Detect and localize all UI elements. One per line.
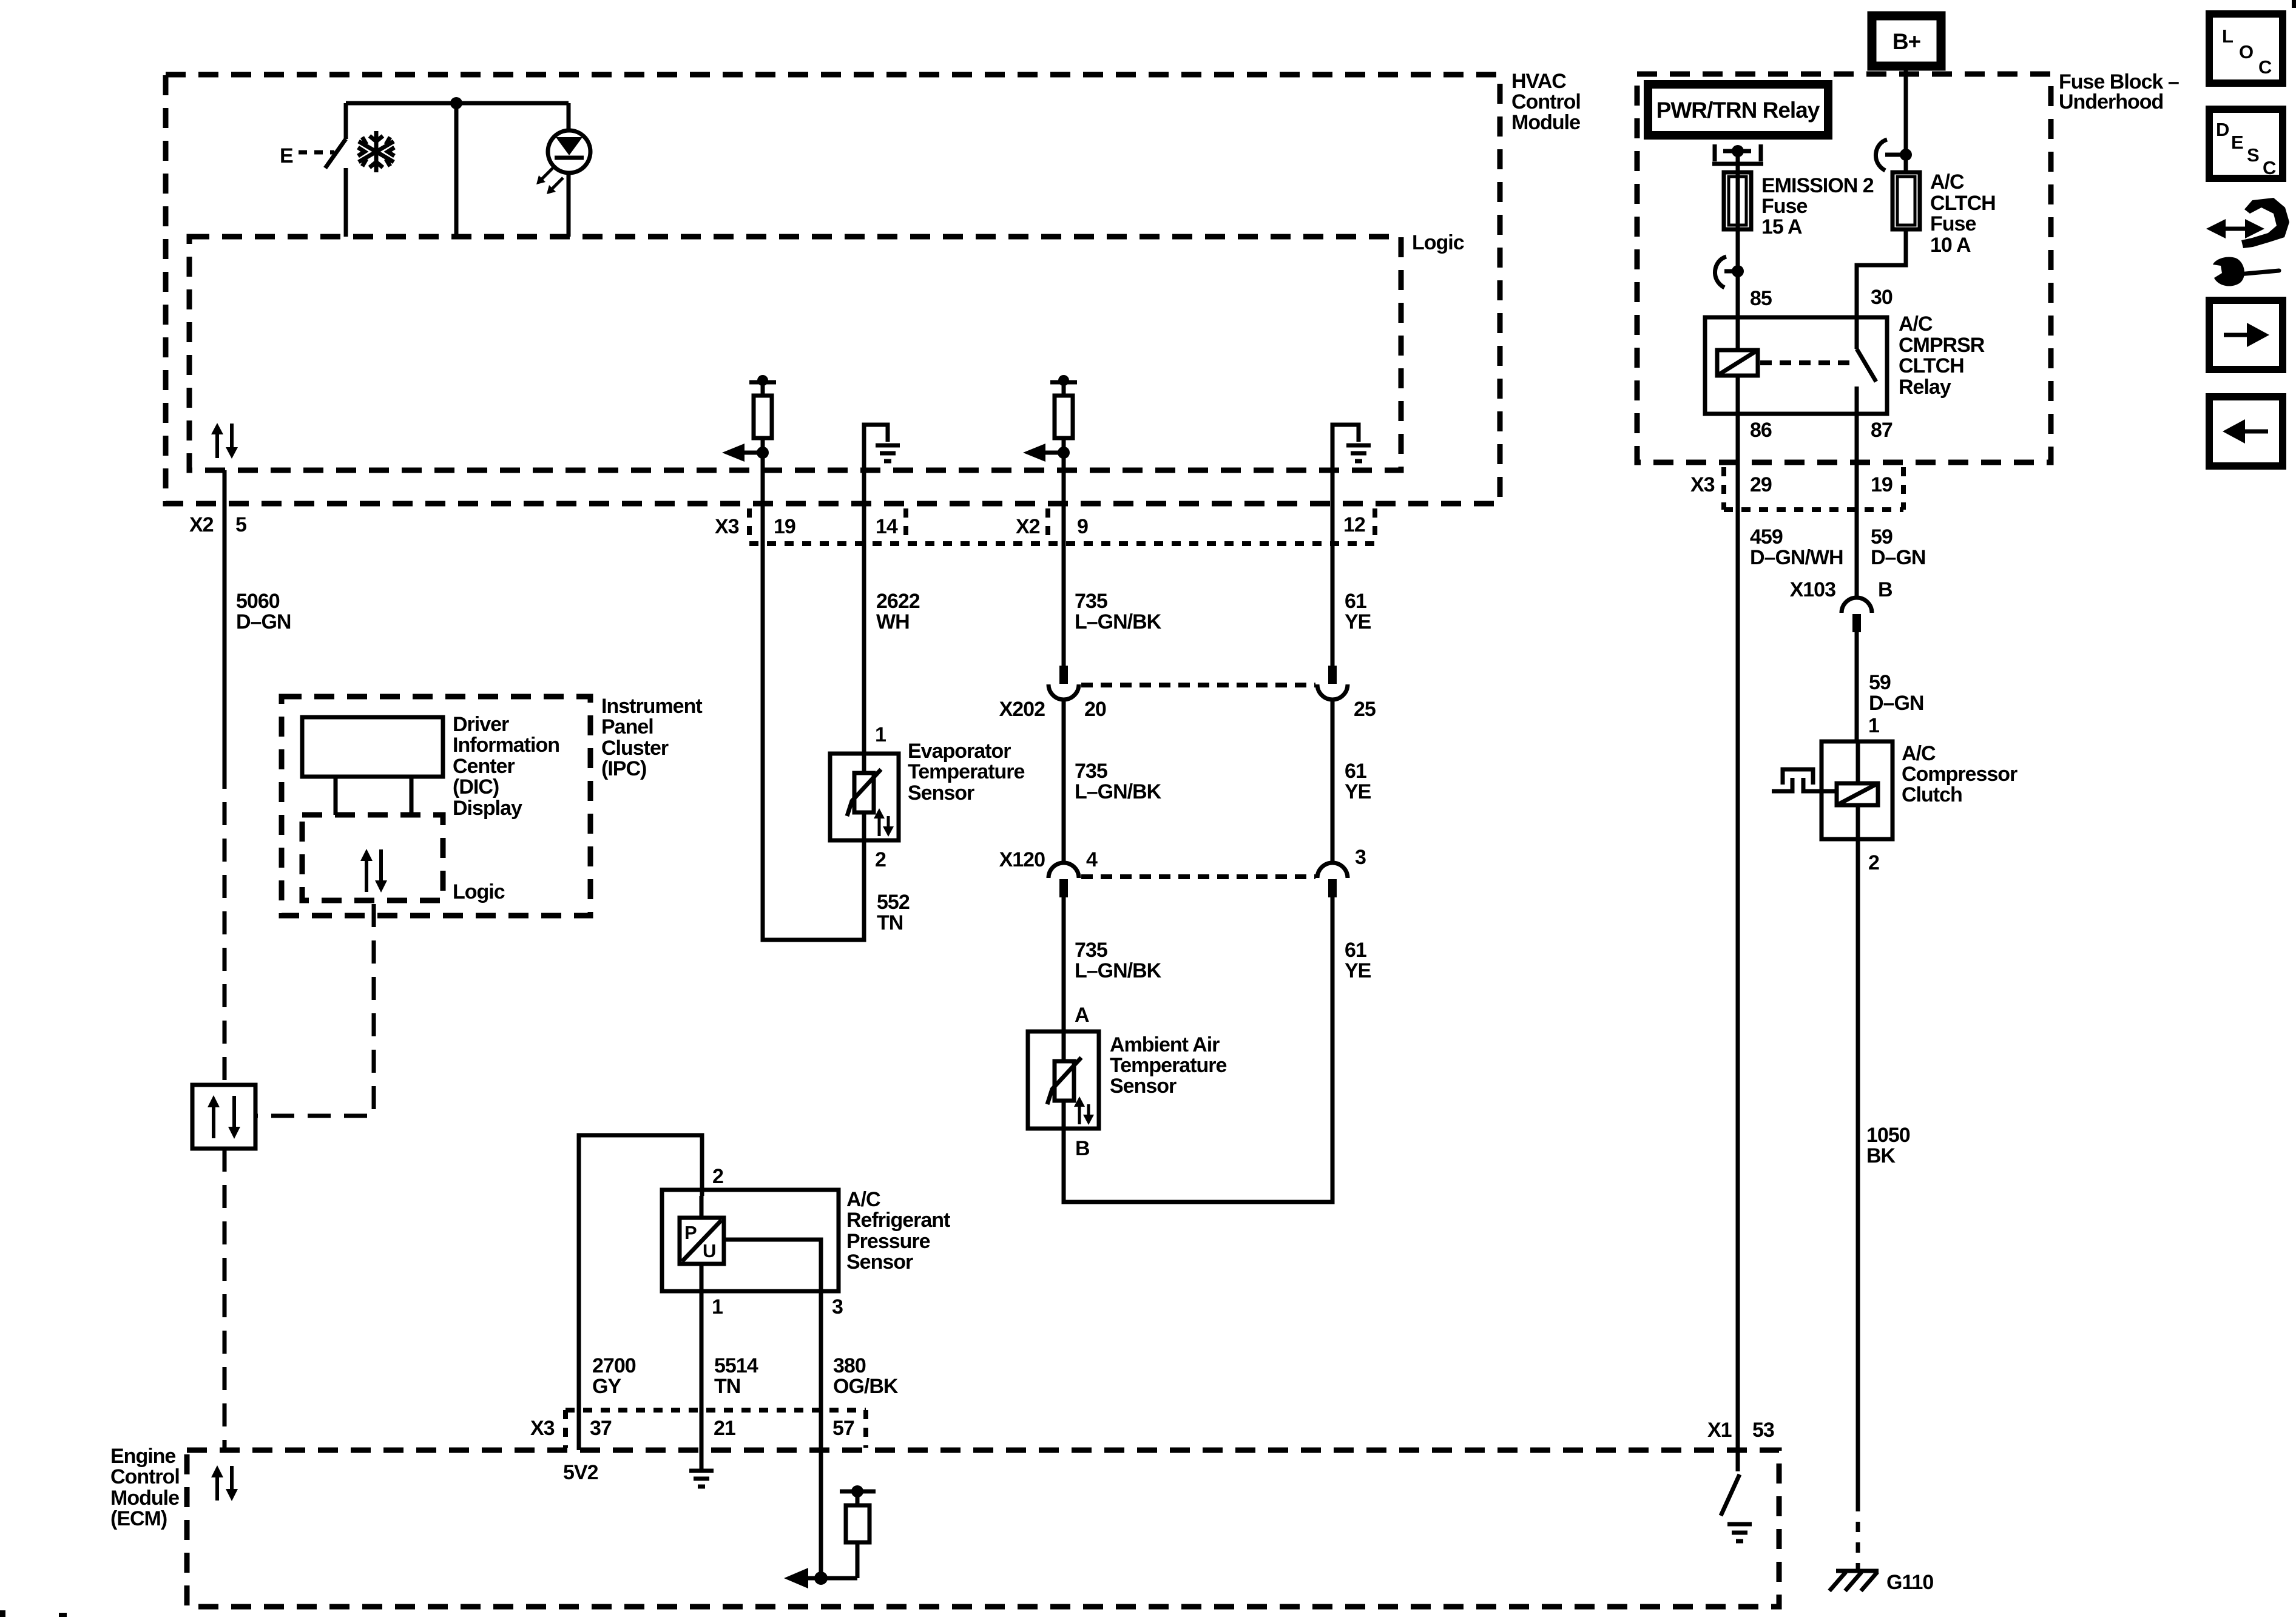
connector X103 (1790, 578, 1893, 632)
svg-text:Relay: Relay (1899, 376, 1951, 399)
svg-text:Control: Control (1511, 90, 1581, 113)
A/C refrigerant pressure sensor (662, 1188, 950, 1291)
wire 735 L-GN/BK (X120 to ambient A) (1064, 897, 1162, 1031)
ground: ECM internal at 21 (689, 1450, 714, 1487)
node: arrow junction 19 (722, 444, 769, 462)
svg-text:30: 30 (1871, 286, 1893, 309)
svg-text:1: 1 (712, 1295, 723, 1318)
svg-text:86: 86 (1750, 419, 1772, 442)
svg-text:Engine: Engine (110, 1445, 175, 1468)
connector row X3/X2 under HVAC (715, 508, 1375, 544)
DIC display (302, 713, 559, 820)
svg-text:D–GN: D–GN (1869, 692, 1923, 715)
relay switch (1760, 317, 1876, 414)
IPC box (282, 695, 702, 916)
wire 2622 WH (X3-14 to evap pin 1) (864, 545, 920, 754)
svg-text:YE: YE (1345, 610, 1371, 633)
svg-text:5514: 5514 (714, 1354, 758, 1377)
connector X120 (999, 846, 1366, 897)
svg-text:GY: GY (592, 1375, 621, 1398)
svg-text:U: U (703, 1240, 715, 1261)
resistor: pull-up on X3-19 input (749, 375, 776, 545)
icon: next arrow box (2209, 300, 2283, 370)
fuse: A/C CLTCH 10A (1893, 170, 1996, 257)
fuse: EMISSION 2 15A (1724, 156, 1874, 271)
svg-text:552: 552 (877, 891, 910, 914)
svg-text:14: 14 (876, 515, 898, 538)
wire: B+ feed (1904, 67, 1908, 172)
svg-text:G110: G110 (1886, 1571, 1933, 1594)
terminal: EMISSION 2 fuse holder (1712, 144, 1763, 164)
svg-text:B: B (1878, 578, 1893, 601)
svg-text:2: 2 (712, 1165, 723, 1188)
svg-text:Logic: Logic (1412, 231, 1464, 254)
wire 59 D-GN to compressor (1857, 632, 1923, 741)
icon: DESC nav box (2209, 109, 2283, 178)
svg-text:PWR/TRN Relay: PWR/TRN Relay (1656, 98, 1820, 123)
wire 61 YE (X2-12 to X202) (1345, 590, 1371, 633)
svg-text:19: 19 (1871, 473, 1893, 496)
A/C compressor clutch (1822, 741, 2017, 839)
svg-text:D: D (2216, 119, 2229, 140)
pin X2-5 (189, 513, 246, 536)
svg-text:(ECM): (ECM) (110, 1507, 167, 1530)
svg-text:E: E (2231, 132, 2243, 153)
svg-text:Panel: Panel (601, 715, 653, 738)
svg-text:53: 53 (1752, 1419, 1774, 1442)
svg-text:Ambient Air: Ambient Air (1110, 1033, 1220, 1056)
svg-text:1: 1 (1868, 714, 1879, 737)
svg-text:9: 9 (1077, 515, 1088, 538)
svg-text:Sensor: Sensor (846, 1251, 913, 1274)
wire 552 TN (evap pin 2 loop to X3-19) (763, 545, 910, 940)
svg-text:735: 735 (1075, 760, 1107, 783)
svg-text:Clutch: Clutch (1902, 783, 1962, 806)
svg-text:D–GN: D–GN (1871, 546, 1925, 569)
svg-text:2622: 2622 (876, 590, 920, 613)
LED light arrows (536, 168, 563, 194)
svg-text:X2: X2 (189, 513, 214, 536)
svg-text:19: 19 (774, 515, 795, 538)
svg-text:L–GN/BK: L–GN/BK (1075, 780, 1162, 803)
svg-text:59: 59 (1871, 525, 1893, 549)
HVAC Logic box (189, 231, 1464, 470)
LED indicator (548, 103, 590, 237)
icon: LOC nav box (2209, 14, 2283, 83)
svg-text:X1: X1 (1707, 1419, 1732, 1442)
wire 735 L-GN/BK (X2-9 to X202) (1075, 590, 1162, 633)
svg-text:Center: Center (453, 755, 515, 778)
wire 61 YE (X202 to X120 right) (1332, 698, 1371, 863)
svg-text:Display: Display (453, 797, 522, 820)
svg-text:1: 1 (875, 723, 886, 746)
wire: top bus in HVAC (346, 101, 569, 106)
svg-text:Pressure: Pressure (846, 1230, 930, 1253)
ground: HVAC internal X3-14 (864, 425, 900, 545)
switch S1 (A/C request) (280, 103, 346, 237)
relay pin labels (1750, 419, 1893, 442)
ECM box (110, 1445, 1779, 1607)
ECM switch (A/C relay control) (1721, 1450, 1752, 1541)
svg-text:S: S (2247, 144, 2259, 166)
svg-text:85: 85 (1750, 287, 1772, 310)
svg-text:B: B (1075, 1137, 1090, 1160)
svg-text:Instrument: Instrument (601, 695, 702, 718)
svg-text:15 A: 15 A (1761, 215, 1802, 238)
svg-text:X2: X2 (1016, 515, 1040, 538)
snowflake icon (358, 131, 394, 172)
svg-text:380: 380 (833, 1354, 866, 1377)
serial data arrows in HVAC logic (211, 423, 238, 459)
svg-text:YE: YE (1345, 959, 1371, 982)
svg-text:Cluster: Cluster (601, 737, 669, 760)
svg-text:(IPC): (IPC) (601, 757, 646, 780)
svg-text:3: 3 (1355, 846, 1366, 869)
svg-text:E: E (280, 144, 293, 167)
svg-text:A/C: A/C (1930, 170, 1964, 194)
resistor: pull-up on X2-9 input (1050, 375, 1077, 666)
svg-text:C: C (2258, 56, 2272, 78)
svg-text:TN: TN (877, 911, 903, 934)
svg-text:5: 5 (235, 513, 246, 536)
evaporator temperature sensor (830, 740, 1025, 840)
svg-text:3: 3 (832, 1295, 843, 1318)
ground G110 (1829, 1571, 1933, 1594)
connector row X3 29/19 (1690, 467, 1903, 510)
svg-text:X103: X103 (1790, 578, 1835, 601)
svg-text:P: P (684, 1222, 697, 1243)
wire: junction down to logic (454, 103, 459, 237)
svg-text:25: 25 (1354, 698, 1376, 721)
relay: A/C CMPRSR CLTCH (1705, 312, 1985, 414)
svg-text:Sensor: Sensor (1110, 1075, 1177, 1098)
svg-text:EMISSION 2: EMISSION 2 (1761, 174, 1874, 197)
svg-text:Temperature: Temperature (1110, 1054, 1227, 1077)
HVAC Control Module box (166, 70, 1581, 504)
svg-text:CLTCH: CLTCH (1930, 192, 1996, 215)
svg-text:Underhood: Underhood (2059, 90, 2163, 113)
svg-text:L–GN/BK: L–GN/BK (1075, 610, 1162, 633)
wire: ambient B loop to 61 YE (1064, 897, 1371, 1202)
svg-text:A/C: A/C (1899, 312, 1933, 336)
wire 59 D-GN (1857, 414, 1925, 599)
svg-text:5060: 5060 (236, 590, 280, 613)
serial data arrows in IPC logic (360, 849, 387, 893)
icon: wiring repair (2206, 198, 2289, 286)
svg-text:OG/BK: OG/BK (833, 1375, 899, 1398)
PWR/TRN Relay label box (1648, 84, 1828, 135)
svg-text:(DIC): (DIC) (453, 775, 499, 798)
svg-text:61: 61 (1345, 760, 1366, 783)
svg-text:735: 735 (1075, 939, 1107, 962)
IPC logic box (302, 815, 505, 903)
connector row ECM X3 37/21/57 (530, 1410, 866, 1484)
svg-text:Module: Module (110, 1487, 179, 1510)
svg-text:10 A: 10 A (1930, 234, 1971, 257)
svg-text:CMPRSR: CMPRSR (1899, 334, 1985, 357)
svg-text:Control: Control (110, 1465, 180, 1488)
relay coil (1717, 317, 1758, 414)
serial data node box (192, 1085, 255, 1149)
Fuse Block - Underhood box (1637, 70, 2179, 462)
svg-text:Driver: Driver (453, 713, 509, 736)
svg-text:B+: B+ (1893, 29, 1921, 54)
svg-text:L–GN/BK: L–GN/BK (1075, 959, 1162, 982)
svg-text:Logic: Logic (453, 880, 505, 903)
wire 735 L-GN/BK (X202 to X120) (1064, 698, 1162, 863)
svg-text:O: O (2239, 41, 2253, 62)
wire 5060 D-GN (225, 470, 291, 1085)
svg-text:61: 61 (1345, 939, 1366, 962)
splice hook at 85 (1715, 257, 1744, 288)
node: arrow junction 9 (1023, 444, 1070, 462)
svg-text:61: 61 (1345, 590, 1366, 613)
svg-text:BK: BK (1866, 1144, 1896, 1167)
svg-text:2700: 2700 (592, 1354, 636, 1377)
icon: back arrow box (2209, 397, 2283, 466)
wire: IPC serial data drop (255, 904, 374, 1116)
svg-text:D–GN/WH: D–GN/WH (1750, 546, 1843, 569)
svg-text:2: 2 (875, 848, 886, 871)
svg-text:735: 735 (1075, 590, 1107, 613)
svg-text:Information: Information (453, 734, 559, 757)
ECM 5V reference network on 57 (840, 1485, 876, 1578)
node: 57 junction with left arrow (784, 1568, 857, 1588)
svg-text:87: 87 (1871, 419, 1893, 442)
serial data arrows in ECM (211, 1465, 238, 1501)
svg-text:C: C (2263, 157, 2276, 178)
connector X202 (999, 666, 1376, 721)
svg-text:Fuse: Fuse (1761, 195, 1807, 218)
svg-text:459: 459 (1750, 525, 1783, 549)
wire 2700 GY (ECM 37 to pressure sensor 2) (579, 1135, 723, 1450)
svg-text:Compressor: Compressor (1902, 763, 2017, 786)
svg-text:2: 2 (1868, 851, 1879, 874)
svg-text:X3: X3 (530, 1417, 555, 1440)
wire to relay 85 (1738, 271, 1772, 317)
svg-text:YE: YE (1345, 780, 1371, 803)
svg-text:12: 12 (1343, 513, 1365, 536)
svg-text:Fuse: Fuse (1930, 212, 1976, 235)
svg-text:4: 4 (1086, 848, 1098, 871)
svg-text:X202: X202 (999, 698, 1045, 721)
svg-text:Evaporator: Evaporator (908, 740, 1011, 763)
svg-text:5V2: 5V2 (563, 1461, 598, 1484)
svg-text:Refrigerant: Refrigerant (846, 1209, 950, 1232)
svg-text:Module: Module (1511, 111, 1580, 134)
svg-text:57: 57 (832, 1417, 854, 1440)
svg-text:1050: 1050 (1866, 1124, 1910, 1147)
svg-text:21: 21 (714, 1417, 735, 1440)
svg-text:CLTCH: CLTCH (1899, 354, 1964, 377)
svg-text:HVAC: HVAC (1511, 70, 1566, 93)
svg-text:A/C: A/C (846, 1188, 880, 1211)
svg-text:A/C: A/C (1902, 742, 1936, 765)
svg-text:L: L (2222, 25, 2233, 47)
svg-text:X120: X120 (999, 848, 1045, 871)
svg-text:TN: TN (714, 1375, 740, 1398)
wire 459 D-GN/WH (1707, 414, 1843, 1450)
svg-text:Sensor: Sensor (908, 781, 974, 805)
svg-text:Temperature: Temperature (908, 760, 1025, 783)
svg-text:20: 20 (1084, 698, 1106, 721)
ambient air temperature sensor (1028, 1031, 1227, 1129)
wire 380 OG/BK (pressure 3 to ECM 57) (821, 1291, 899, 1578)
wire fuse to relay 30 (1857, 229, 1906, 317)
svg-text:X3: X3 (1690, 473, 1715, 496)
svg-text:A: A (1075, 1004, 1089, 1027)
clutch mechanical symbol (1772, 769, 1837, 791)
node: junction on top bus (450, 97, 462, 109)
svg-text:37: 37 (590, 1417, 612, 1440)
wire 1050 BK (1858, 839, 1910, 1569)
ground: HVAC internal X2-12 (1332, 425, 1371, 666)
wire: serial data to ECM (223, 1149, 227, 1450)
B+ power flag (1872, 16, 1941, 66)
svg-text:D–GN: D–GN (236, 610, 291, 633)
svg-text:29: 29 (1750, 473, 1772, 496)
wire 5514 TN (pressure 1 to ECM 21) (701, 1291, 758, 1450)
svg-text:WH: WH (876, 610, 910, 633)
splice hook at B+ drop (1876, 140, 1912, 170)
svg-text:59: 59 (1869, 671, 1891, 694)
svg-text:X3: X3 (715, 515, 739, 538)
